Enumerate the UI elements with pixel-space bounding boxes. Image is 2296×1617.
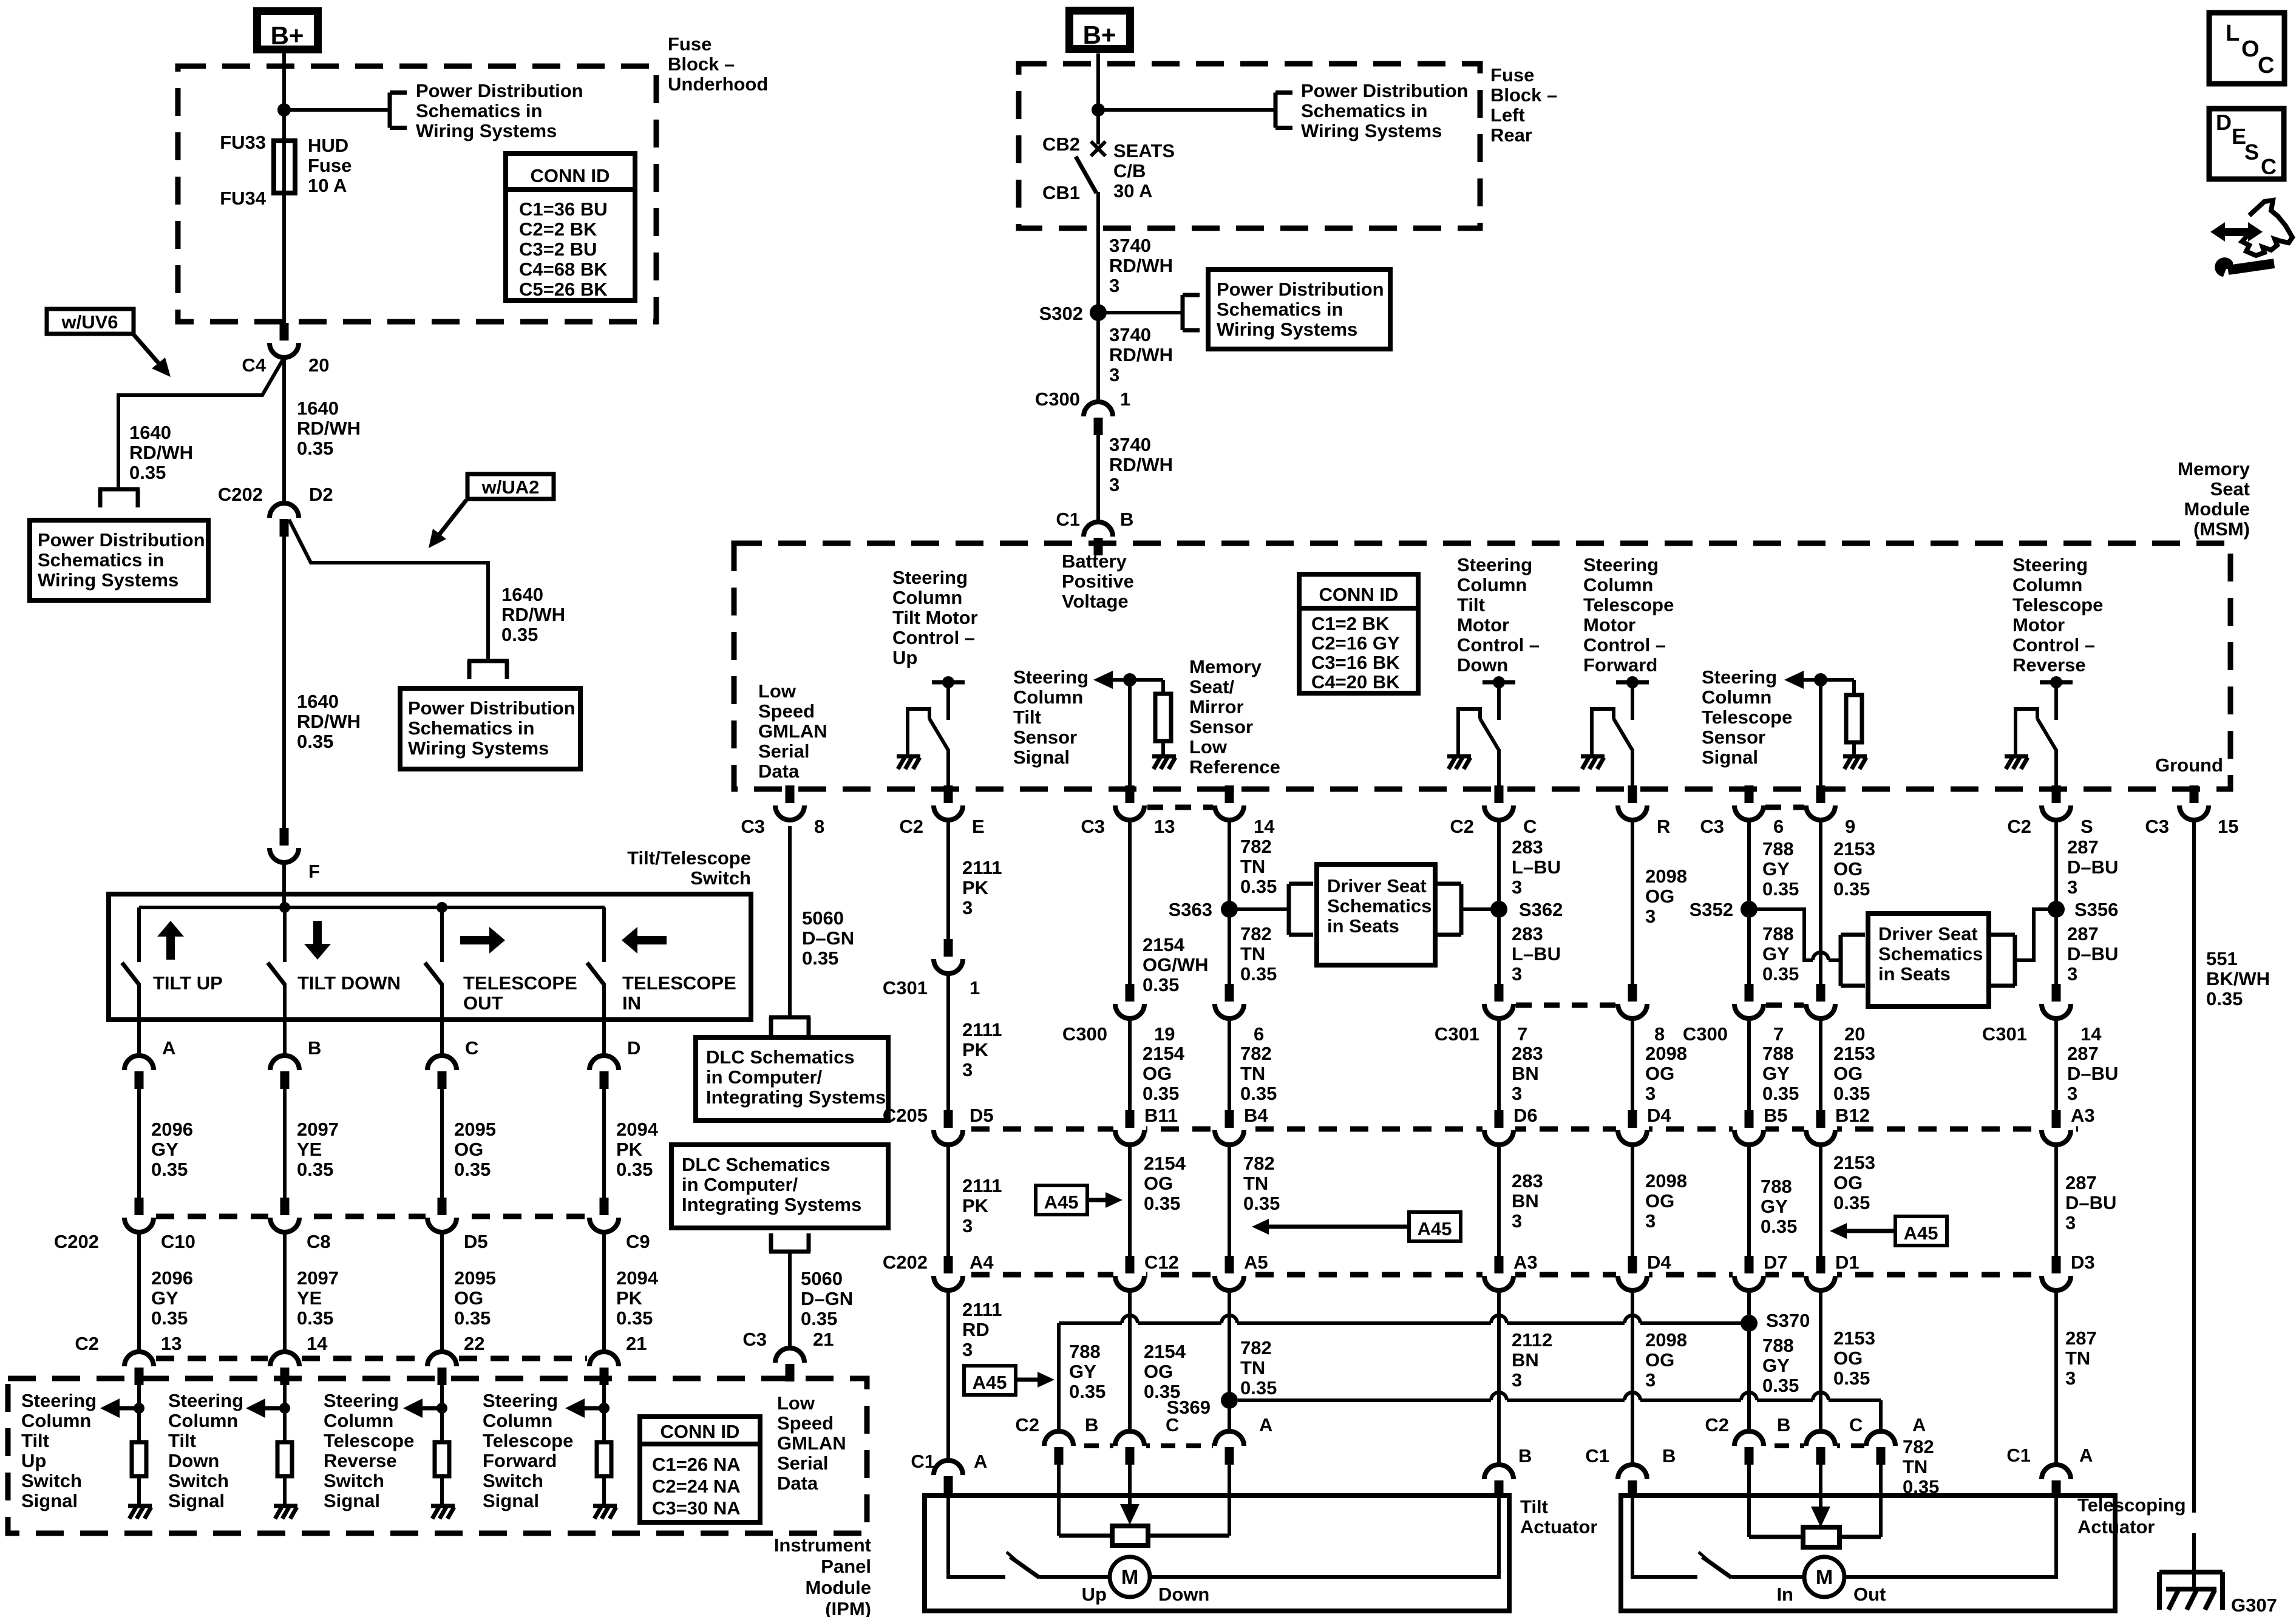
svg-text:2098: 2098: [1645, 1043, 1687, 1064]
svg-text:Control –: Control –: [2012, 634, 2095, 656]
svg-text:C202: C202: [54, 1231, 99, 1252]
connector row C202 dashed line: [940, 1272, 2076, 1278]
svg-text:OG: OG: [1833, 858, 1863, 880]
svg-text:Telescope: Telescope: [1702, 707, 1792, 728]
svg-text:C5=26 BK: C5=26 BK: [519, 279, 608, 300]
svg-text:A45: A45: [1418, 1218, 1452, 1239]
connector C205 row at x=1861: [1126, 1110, 1135, 1128]
connector tilt/tele actuator pin C2p: [1806, 1431, 1835, 1446]
svg-text:13: 13: [161, 1333, 182, 1354]
svg-text:Up: Up: [21, 1450, 46, 1471]
svg-text:30 A: 30 A: [1113, 180, 1152, 202]
svg-text:C202: C202: [883, 1252, 928, 1273]
wire branch to w/UV6: [118, 358, 284, 487]
connector C1 pin A (tilt): [934, 1460, 963, 1475]
svg-text:RD: RD: [962, 1319, 990, 1340]
svg-text:DLC Schematics: DLC Schematics: [706, 1046, 855, 1068]
svg-text:C205: C205: [883, 1105, 928, 1126]
svg-text:287: 287: [2065, 1172, 2097, 1193]
svg-text:Wiring Systems: Wiring Systems: [416, 120, 557, 141]
svg-text:CB2: CB2: [1042, 134, 1080, 155]
switch TELESCOPE IN blade: [587, 963, 604, 985]
svg-text:0.35: 0.35: [1240, 876, 1277, 897]
row C205 mask x=2689: [1616, 1125, 1649, 1133]
wire tilt sensor to pin 13: [1128, 680, 1132, 787]
svg-text:Steering: Steering: [1583, 554, 1659, 575]
connector MSM pin at x=1301: [786, 785, 795, 803]
svg-text:C/B: C/B: [1113, 160, 1146, 181]
wire switch box to connector D: [602, 1020, 606, 1054]
svg-text:0.35: 0.35: [1240, 1377, 1277, 1398]
wire 2154 to pin C: [1128, 1289, 1132, 1430]
svg-text:Speed: Speed: [758, 700, 815, 722]
svg-text:PK: PK: [962, 1039, 989, 1060]
wire switch box to connector A: [137, 1020, 141, 1054]
svg-text:L: L: [2226, 21, 2240, 46]
ref bracket driver seat left: [1287, 884, 1291, 935]
connector C4 pin 20: [280, 323, 289, 341]
wire 788 vertical to pin B: [1057, 1323, 1061, 1430]
svg-text:Down: Down: [168, 1450, 219, 1471]
svg-text:15: 15: [2218, 816, 2238, 837]
ground IPM B: [274, 1504, 297, 1508]
svg-text:D–GN: D–GN: [802, 927, 854, 949]
wire 2154 pin 13 to C300: [1128, 819, 1132, 985]
svg-text:BK/WH: BK/WH: [2206, 968, 2270, 989]
svg-text:0.35: 0.35: [151, 1307, 188, 1329]
svg-text:IN: IN: [622, 992, 641, 1014]
connector MSM pin at x=1562: [944, 785, 953, 803]
svg-text:2098: 2098: [1645, 1329, 1687, 1351]
svg-text:2154: 2154: [1143, 934, 1185, 955]
svg-text:Sensor: Sensor: [1189, 716, 1253, 737]
svg-text:Panel: Panel: [821, 1556, 871, 1577]
wire 283 BN to C205: [1497, 1017, 1501, 1111]
icon hand with arrow: [2242, 200, 2292, 256]
svg-text:Schematics in: Schematics in: [1301, 100, 1427, 121]
svg-text:Down: Down: [1457, 654, 1508, 676]
svg-text:0.35: 0.35: [454, 1159, 491, 1180]
svg-text:0.35: 0.35: [2206, 988, 2243, 1009]
svg-text:Low: Low: [1189, 736, 1228, 758]
connector C205 row at x=1562: [944, 1110, 953, 1128]
svg-text:Motor: Motor: [1583, 614, 1635, 636]
svg-text:Column: Column: [2012, 574, 2082, 595]
connector row C205 dashed line: [940, 1127, 2078, 1132]
instrument panel module dashed box: [8, 1378, 867, 1533]
connector tilt/tele actuator pin B: [1044, 1431, 1073, 1446]
wire 283 BN to C202: [1497, 1144, 1501, 1256]
svg-text:Sensor: Sensor: [1013, 727, 1077, 748]
svg-text:C: C: [2261, 154, 2277, 179]
svg-text:D5: D5: [970, 1105, 994, 1126]
connector C202 pin D2: [270, 503, 299, 518]
svg-text:C: C: [465, 1037, 478, 1059]
row C202 mask x=1861: [1113, 1270, 1146, 1279]
connector pin C (switch): [427, 1056, 457, 1070]
svg-text:TN: TN: [1243, 1173, 1268, 1194]
svg-text:Block –: Block –: [668, 53, 735, 75]
svg-text:Power Distribution: Power Distribution: [1301, 80, 1469, 101]
svg-text:A: A: [974, 1451, 987, 1472]
svg-text:GMLAN: GMLAN: [758, 720, 827, 742]
switch TILT UP stem: [137, 907, 141, 962]
connector MSM pin at x=2025: [1225, 785, 1234, 803]
svg-text:GY: GY: [1761, 1196, 1788, 1217]
CONN ID table (MSM): [1299, 574, 1418, 693]
svg-text:Tilt Motor: Tilt Motor: [892, 607, 978, 628]
row mask C: [426, 1213, 458, 1220]
node bus junction 2: [436, 902, 447, 913]
svg-text:2111: 2111: [962, 1175, 1002, 1196]
wire 287 TN to telescoping C1 A: [2054, 1289, 2058, 1463]
svg-text:Wiring Systems: Wiring Systems: [38, 569, 178, 591]
svg-text:0.35: 0.35: [297, 438, 333, 459]
svg-text:Steering: Steering: [168, 1390, 243, 1411]
svg-text:2098: 2098: [1645, 866, 1687, 887]
svg-text:OG: OG: [1143, 1063, 1172, 1084]
svg-text:C3: C3: [1081, 816, 1105, 837]
svg-text:Telescope: Telescope: [324, 1430, 414, 1451]
svg-text:A45: A45: [1044, 1192, 1079, 1213]
node S352: [1741, 901, 1758, 918]
svg-text:B+: B+: [271, 21, 304, 50]
node IPM junction D: [599, 1403, 610, 1414]
svg-text:0.35: 0.35: [1762, 1083, 1799, 1104]
wire S369 to pin A (right): [1238, 1398, 1491, 1402]
connector C202 row at x=2689: [1628, 1256, 1637, 1273]
svg-text:Schematics: Schematics: [1878, 943, 1983, 964]
svg-text:A45: A45: [1904, 1222, 1938, 1244]
svg-text:C1: C1: [2006, 1445, 2031, 1466]
connector mid row at x=2469: [1495, 984, 1504, 1002]
svg-text:O: O: [2241, 36, 2260, 62]
svg-text:Integrating Systems: Integrating Systems: [706, 1086, 886, 1108]
svg-text:Schematics: Schematics: [1327, 895, 1432, 917]
svg-text:OG: OG: [1645, 1349, 1674, 1371]
svg-text:Control –: Control –: [1583, 634, 1666, 656]
svg-text:C: C: [1849, 1414, 1863, 1436]
svg-text:OG: OG: [1645, 886, 1674, 907]
svg-text:C: C: [1523, 816, 1537, 837]
row C2 left dashed: [1059, 1443, 1229, 1448]
svg-text:PK: PK: [962, 1195, 989, 1216]
svg-text:C1=26 NA: C1=26 NA: [652, 1454, 741, 1475]
svg-text:287: 287: [2067, 1043, 2099, 1064]
connector MSM pin at x=3614: [2190, 785, 2199, 803]
svg-text:R: R: [1657, 816, 1670, 837]
wire 788 pin 6 to S352: [1747, 819, 1751, 909]
wire 2153 pin 9 to C300 row: [1819, 819, 1822, 985]
wire S302 to power dist ref: [1098, 311, 1183, 314]
wire 287 S356 to C301 row: [2054, 909, 2058, 985]
ground tilt sensor: [1152, 754, 1176, 759]
ground G307 bracket: [2159, 1570, 2223, 1575]
svg-text:OG: OG: [1833, 1172, 1863, 1193]
wire switch bus: [139, 906, 605, 909]
svg-text:HUD: HUD: [308, 135, 348, 156]
connector C202 row at x=2881: [1745, 1256, 1754, 1273]
svg-text:2112: 2112: [1512, 1329, 1552, 1351]
row C2R mask x=2881: [1733, 1442, 1765, 1449]
off-page symbol from DLC (lower): [769, 1250, 810, 1254]
potentiometer tilt: [1059, 1534, 1112, 1538]
row C2 right dashed: [1749, 1443, 1881, 1448]
svg-text:Telescope: Telescope: [483, 1430, 573, 1451]
resistor tilt sensor: [1161, 680, 1165, 694]
svg-text:GY: GY: [1762, 1063, 1790, 1084]
node S363: [1221, 901, 1238, 918]
svg-text:C300: C300: [1035, 388, 1080, 410]
svg-text:A: A: [1912, 1414, 1926, 1436]
node telescope sensor junction: [1814, 673, 1827, 686]
tag A45 to 2154: [1036, 1185, 1087, 1215]
svg-text:S: S: [2080, 816, 2093, 837]
svg-text:3: 3: [1109, 474, 1119, 495]
tilt actuator box: [925, 1496, 1509, 1611]
svg-text:C1: C1: [1585, 1445, 1609, 1466]
svg-text:RD/WH: RD/WH: [129, 442, 193, 463]
node junction at B+ feed: [277, 103, 291, 117]
arrow IPM signal C: [423, 1406, 442, 1411]
svg-text:0.35: 0.35: [454, 1307, 491, 1329]
svg-text:In: In: [1776, 1584, 1793, 1605]
resistor IPM D: [597, 1442, 611, 1476]
svg-text:3: 3: [1645, 1083, 1656, 1104]
svg-text:788: 788: [1762, 923, 1794, 944]
svg-text:D6: D6: [1513, 1105, 1538, 1126]
ref bracket power distribution (S302): [1181, 295, 1185, 330]
svg-text:782: 782: [1240, 1043, 1272, 1064]
svg-text:S: S: [2244, 140, 2259, 164]
svg-text:TELESCOPE: TELESCOPE: [622, 972, 736, 994]
svg-text:OG: OG: [454, 1139, 483, 1160]
wire 2094 to C2 row: [602, 1231, 606, 1351]
switch TELESCOPE OUT blade: [425, 963, 442, 985]
svg-text:1640: 1640: [129, 422, 171, 443]
row C205 mask x=1562: [932, 1125, 965, 1133]
svg-text:GMLAN: GMLAN: [777, 1432, 846, 1454]
svg-text:3: 3: [962, 897, 973, 918]
CONN ID table (underhood): [506, 154, 635, 300]
wire 2094 to C202 row: [602, 1088, 606, 1198]
power symbol B+ (battery positive) left: [257, 12, 318, 50]
svg-text:Column: Column: [1457, 574, 1527, 595]
connector C2 row pin 21: [589, 1352, 619, 1366]
wire tilt C1A to switch: [948, 1493, 1005, 1577]
svg-text:Data: Data: [758, 761, 800, 782]
svg-text:D: D: [627, 1037, 640, 1059]
wire motor to C1 A tele: [1844, 1498, 2056, 1577]
svg-text:Driver Seat: Driver Seat: [1878, 923, 1978, 944]
svg-text:0.35: 0.35: [616, 1159, 653, 1180]
svg-text:Instrument: Instrument: [774, 1534, 871, 1556]
svg-text:Rear: Rear: [1490, 124, 1532, 146]
wire F to switch box: [282, 863, 286, 907]
connector C3 pin 21 (IPM): [775, 1348, 804, 1363]
svg-text:D1: D1: [1835, 1252, 1860, 1273]
node junction B+ right: [1092, 103, 1105, 117]
svg-text:D5: D5: [464, 1231, 488, 1252]
svg-text:Tilt: Tilt: [21, 1430, 49, 1451]
svg-text:2153: 2153: [1833, 838, 1875, 859]
tag A45 to 782: [1409, 1212, 1461, 1241]
connector C202 row pin C8: [280, 1198, 290, 1215]
row C202 mask x=3387: [2040, 1270, 2073, 1279]
svg-text:C3=16 BK: C3=16 BK: [1311, 652, 1400, 673]
svg-text:B+: B+: [1083, 21, 1116, 49]
svg-text:in Seats: in Seats: [1878, 963, 1951, 985]
svg-text:DLC Schematics: DLC Schematics: [682, 1154, 830, 1175]
wire junction to power distribution ref: [284, 108, 390, 112]
label w/UA2 box: [467, 474, 554, 499]
connector C202 row at x=1562: [944, 1256, 953, 1273]
svg-text:TILT UP: TILT UP: [153, 972, 223, 994]
svg-text:w/UA2: w/UA2: [481, 476, 540, 498]
svg-text:782: 782: [1240, 923, 1272, 944]
svg-text:A45: A45: [973, 1372, 1007, 1393]
svg-text:Column: Column: [1583, 574, 1653, 595]
msm row dashed segment 6-9: [1765, 805, 1804, 810]
svg-text:FU34: FU34: [220, 188, 267, 209]
connector C2 row pin 22: [427, 1352, 457, 1366]
svg-text:Schematics in: Schematics in: [416, 100, 542, 121]
wire B into IPM: [283, 1385, 287, 1442]
off-page symbol to power distribution (left): [98, 487, 140, 492]
svg-text:in Seats: in Seats: [1327, 915, 1399, 937]
row C205 mask x=1861: [1113, 1125, 1146, 1133]
svg-text:Control –: Control –: [1457, 634, 1540, 656]
connector MSM pin at x=1861: [1126, 785, 1135, 803]
arrow IPM signal B: [265, 1406, 285, 1411]
svg-text:Steering: Steering: [1013, 666, 1089, 688]
connector C205 row at x=2881: [1745, 1110, 1754, 1128]
svg-text:L–BU: L–BU: [1512, 943, 1561, 964]
wire 2153 to C205: [1819, 1017, 1822, 1111]
svg-text:Wiring Systems: Wiring Systems: [1217, 319, 1357, 340]
svg-text:19: 19: [1154, 1023, 1175, 1045]
svg-text:Signal: Signal: [21, 1490, 78, 1511]
switch tilt motor down (MSM): [1483, 680, 1515, 685]
svg-text:A: A: [1259, 1414, 1272, 1436]
icon arrow right (TELESCOPE OUT): [460, 936, 492, 944]
switch TILT DOWN blade: [268, 963, 285, 985]
ground IPM D: [593, 1504, 617, 1508]
connector C205 row at x=2689: [1628, 1110, 1637, 1128]
svg-text:14: 14: [2080, 1023, 2102, 1045]
svg-text:Forward: Forward: [1583, 654, 1657, 676]
svg-text:0.35: 0.35: [297, 731, 333, 752]
svg-text:S362: S362: [1519, 899, 1563, 920]
circuit breaker SEATS C/B 30A: [1091, 141, 1106, 156]
svg-text:A4: A4: [970, 1252, 994, 1273]
connector C202 row at x=2999: [1816, 1256, 1826, 1273]
wire switch to motor tele: [1731, 1575, 1804, 1579]
svg-text:Integrating Systems: Integrating Systems: [682, 1194, 861, 1215]
svg-text:782: 782: [1240, 1337, 1272, 1358]
connector C1 pin B (telescoping): [1618, 1465, 1647, 1479]
wire S302 to C300: [1096, 313, 1100, 402]
svg-text:RD/WH: RD/WH: [1109, 454, 1173, 475]
svg-text:2096: 2096: [151, 1267, 193, 1289]
row C2R mask x=2999: [1804, 1442, 1837, 1449]
resistor IPM C: [435, 1442, 449, 1476]
connector C202 row at x=1861: [1126, 1256, 1135, 1273]
wire 283 pin C to S362: [1497, 819, 1501, 909]
svg-text:Steering: Steering: [1702, 666, 1777, 688]
svg-text:RD/WH: RD/WH: [1109, 344, 1173, 365]
svg-text:0.35: 0.35: [1762, 1375, 1799, 1396]
wire 2154 to C202: [1128, 1144, 1132, 1256]
box Driver Seat Schematics in Seats (2): [1868, 914, 1989, 1006]
svg-text:C301: C301: [1435, 1023, 1479, 1045]
svg-text:GY: GY: [1762, 858, 1790, 880]
memory seat module dashed box: [734, 543, 2230, 789]
svg-text:C3: C3: [1700, 816, 1724, 837]
wire TILT DOWN to box edge: [283, 983, 287, 1020]
node IPM junction A: [134, 1403, 144, 1414]
connector mid row at x=2999: [1816, 984, 1826, 1002]
connector pin B (switch): [270, 1056, 299, 1070]
svg-text:Wiring Systems: Wiring Systems: [408, 737, 549, 759]
row mask B: [268, 1213, 301, 1220]
svg-text:A: A: [2079, 1445, 2093, 1466]
svg-text:21: 21: [626, 1333, 647, 1354]
wire C202 to F: [282, 536, 286, 834]
svg-text:Driver Seat: Driver Seat: [1327, 875, 1427, 897]
svg-text:B: B: [1662, 1445, 1676, 1466]
svg-text:Voltage: Voltage: [1062, 591, 1129, 612]
wire switch to motor tilt: [1039, 1575, 1110, 1579]
svg-text:Steering: Steering: [324, 1390, 399, 1411]
connector C2 row pin 13: [124, 1352, 154, 1366]
svg-text:10 A: 10 A: [308, 175, 347, 196]
svg-text:7: 7: [1773, 1023, 1784, 1045]
svg-text:2095: 2095: [454, 1119, 496, 1140]
motor telescoping: [1804, 1557, 1844, 1597]
svg-text:2094: 2094: [616, 1119, 659, 1140]
svg-text:C9: C9: [626, 1231, 650, 1252]
icon arrow up (TILT UP): [166, 932, 175, 960]
svg-text:Speed: Speed: [777, 1412, 834, 1434]
svg-text:Schematics in: Schematics in: [38, 549, 164, 571]
svg-text:287: 287: [2067, 923, 2099, 944]
svg-text:3: 3: [1109, 364, 1119, 385]
box Power Distribution Schematics in Wiring Systems (mid): [400, 688, 580, 769]
svg-text:Power Distribution: Power Distribution: [408, 697, 576, 719]
icon wrench: [2215, 257, 2233, 277]
svg-text:Battery: Battery: [1062, 551, 1127, 572]
switch tilt actuator: [1007, 1552, 1016, 1561]
row C202 mask x=2999: [1804, 1270, 1837, 1279]
svg-text:2096: 2096: [151, 1119, 193, 1140]
wire pin A into tilt pot: [1228, 1465, 1231, 1536]
connector MSM pin at x=3387: [2052, 785, 2061, 803]
svg-text:C2: C2: [75, 1333, 99, 1354]
wire 782 to S369: [1228, 1289, 1231, 1400]
box Driver Seat Schematics in Seats (1): [1317, 864, 1435, 965]
connector C205 row at x=2469: [1495, 1110, 1504, 1128]
wire pin A into tele pot: [1879, 1465, 1883, 1537]
svg-text:Up: Up: [1082, 1584, 1107, 1605]
svg-text:Memory: Memory: [2178, 458, 2250, 480]
svg-text:C: C: [2258, 53, 2274, 78]
tag A45 to 2153: [1895, 1216, 1947, 1246]
svg-text:M: M: [1816, 1566, 1833, 1589]
wire S352 jog to driver seat ref 2: [1749, 909, 1813, 960]
connector MSM pin at x=2469: [1495, 785, 1504, 803]
svg-text:283: 283: [1512, 923, 1543, 944]
